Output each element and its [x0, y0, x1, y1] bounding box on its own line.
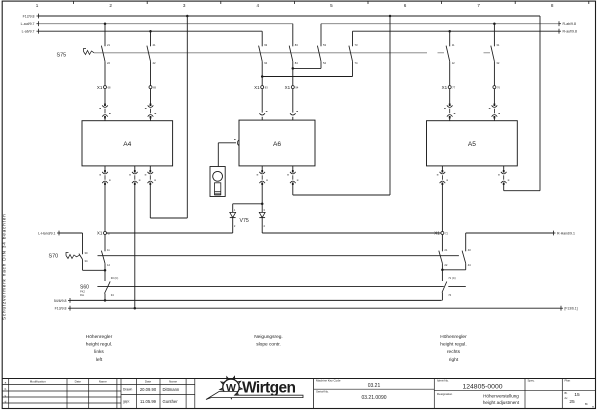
wire contact12 to node — [104, 267, 106, 270]
box A6 — [239, 120, 315, 166]
svg-text:71 (C): 71 (C) — [448, 276, 456, 280]
svg-text:53: 53 — [323, 43, 326, 47]
connector pin A6 top-left — [259, 111, 267, 115]
svg-text:L-auf/9.7: L-auf/9.7 — [21, 22, 35, 26]
svg-text:height regul.: height regul. — [440, 342, 466, 348]
svg-text:Rot: Rot — [80, 293, 84, 297]
svg-text:A5: A5 — [468, 141, 476, 148]
wire 84-54 tie — [292, 65, 321, 70]
node R-auf junction — [448, 30, 451, 33]
terminal X1:77 — [442, 85, 456, 90]
svg-text:R-ab/9.8: R-ab/9.8 — [563, 22, 576, 26]
wire stub 74 throw — [448, 286, 466, 288]
svg-text:64: 64 — [264, 61, 267, 65]
wire R-ab — [321, 21, 561, 26]
wire A6 pin2 to F12 riser — [293, 16, 390, 195]
svg-text:7: 7 — [477, 3, 480, 8]
connector pin A4 top-left — [99, 104, 110, 119]
terminal X1:76 — [493, 85, 501, 89]
svg-text:5: 5 — [330, 3, 333, 8]
terminal X1:67 — [97, 231, 111, 236]
terminal X1:68 — [97, 85, 111, 90]
svg-text:25: 25 — [569, 399, 575, 405]
svg-text:slope contr.: slope contr. — [256, 342, 281, 348]
svg-text:34: 34 — [111, 293, 114, 297]
caption middle section — [254, 334, 283, 348]
svg-text:Machine Key Code: Machine Key Code — [316, 379, 341, 383]
connector pin A4 top-right — [145, 104, 156, 119]
wire X1:93 to connector — [261, 89, 263, 113]
svg-text:Bl.: Bl. — [565, 391, 568, 395]
label R-Hand/9.1 — [557, 232, 575, 236]
wire L-ab to contact 41 — [150, 31, 152, 40]
wire R-Hand to contact 43 — [465, 233, 467, 245]
wire contact12 to X1:77 — [449, 65, 451, 86]
node F12-A6 junction — [389, 15, 392, 18]
svg-text:S75: S75 — [57, 53, 67, 59]
svg-text:Wirtgen: Wirtgen — [242, 380, 295, 397]
svg-text:Name: Name — [99, 380, 107, 384]
svg-text:dv.: dv. — [565, 396, 569, 400]
contact S75:21-22 — [101, 40, 110, 65]
wire contact42 to X1:69 — [150, 65, 152, 86]
svg-text:44: 44 — [468, 263, 471, 267]
connector pin A6 top-right — [290, 111, 298, 115]
connector pin A5 bottom-1 — [437, 166, 448, 185]
label 54/6/9.8 — [54, 299, 67, 303]
svg-text:F12/9.8: F12/9.8 — [23, 15, 35, 19]
label R-auf/9.8 — [563, 30, 577, 34]
svg-text:30: 30 — [85, 251, 88, 255]
label F12/9.8 — [23, 15, 35, 19]
wire A5 pin1 to X1:72 — [441, 185, 443, 232]
label S70 — [49, 253, 59, 259]
contact 21-22 lower-right — [439, 245, 448, 267]
svg-text:11.05.99: 11.05.99 — [140, 399, 157, 404]
svg-text:V75: V75 — [240, 218, 249, 224]
title block grid right — [314, 379, 596, 409]
svg-text:6: 6 — [404, 3, 407, 8]
svg-text:12: 12 — [107, 263, 110, 267]
label F13/6.1 right — [565, 307, 578, 311]
svg-text:54/6/9.8: 54/6/9.8 — [54, 299, 67, 303]
header Date right — [145, 380, 152, 384]
wire bus L-auf — [37, 21, 293, 26]
wire S60 to bus54 — [104, 296, 106, 300]
svg-text:Dittmann: Dittmann — [163, 387, 180, 392]
wire X1:72 to contact 21 — [441, 235, 443, 246]
wire A4 pin2 to F13 bus — [134, 185, 136, 308]
caption right section — [440, 334, 467, 363]
wire R-Hand — [466, 231, 556, 236]
wire X1:94 to connector — [292, 89, 294, 113]
wire X1:67 to contact 11 — [104, 235, 106, 246]
svg-text:Date: Date — [75, 380, 82, 384]
svg-text:63: 63 — [264, 43, 267, 47]
wire L-auf to contact 21 — [104, 24, 106, 40]
connector pin A4 bottom-1 — [99, 166, 110, 185]
svg-text:124805-0000: 124805-0000 — [462, 383, 502, 390]
svg-text:21: 21 — [107, 43, 110, 47]
wire connector to A6 right — [292, 117, 294, 120]
svg-text:74: 74 — [355, 61, 358, 65]
switch actuator S70 — [66, 253, 80, 259]
svg-text:Neigungsreg.: Neigungsreg. — [254, 334, 283, 340]
svg-text:74: 74 — [448, 293, 451, 297]
diode V75 right — [259, 204, 265, 228]
svg-text:gepr.: gepr. — [123, 400, 130, 404]
svg-text:R-Hand/9.1: R-Hand/9.1 — [557, 232, 575, 236]
node junction left lower — [104, 269, 107, 272]
svg-text:Drawn: Drawn — [123, 388, 132, 392]
svg-text:32: 32 — [496, 61, 499, 65]
wire bus F13 — [68, 306, 563, 311]
wire rung lower — [97, 286, 443, 288]
svg-text:3: 3 — [183, 3, 186, 8]
label L-Hand/9.1 — [38, 232, 55, 236]
svg-text:22: 22 — [444, 263, 447, 267]
wire V75 left to X1:67 — [107, 218, 233, 233]
wire connector to A6 left — [261, 117, 263, 120]
switch actuator S75 — [84, 49, 95, 55]
wire connector to A4 right — [150, 118, 152, 120]
connector pin A5 top-right — [489, 104, 500, 119]
svg-text:X1: X1 — [97, 231, 103, 236]
svg-text:X1: X1 — [285, 85, 291, 90]
title block grid left — [2, 379, 595, 409]
svg-text:height adjustment: height adjustment — [483, 400, 520, 405]
wire L-ab corner to contact 63 — [261, 31, 263, 40]
box A4 — [82, 121, 173, 166]
svg-text:2: 2 — [109, 3, 112, 8]
node F12-A4 junction — [186, 15, 189, 18]
cell Designation — [437, 392, 520, 405]
cell Ident-No — [437, 379, 503, 391]
svg-text:X1: X1 — [434, 231, 440, 236]
svg-text:right: right — [449, 357, 459, 363]
connector pin A6 bottom-1 — [257, 166, 268, 185]
terminal X1:72 — [434, 231, 448, 236]
svg-text:left: left — [96, 357, 103, 363]
contact S75:73-74 — [349, 40, 358, 65]
svg-text:21: 21 — [444, 248, 447, 252]
svg-text:Ident-No.: Ident-No. — [437, 379, 449, 383]
wire connector to A4 — [104, 118, 106, 120]
svg-text:31: 31 — [496, 43, 499, 47]
cell Serial-No — [316, 389, 387, 401]
wire V75 right to X1:72 — [262, 218, 441, 233]
node junction right lower — [441, 269, 444, 272]
wire contact22 to node — [441, 267, 443, 270]
cell Spec — [528, 379, 536, 383]
contact 71C-74 — [442, 270, 456, 297]
wire bus L-ab — [37, 29, 263, 34]
row Drawn — [123, 387, 180, 392]
contact S75:31-32 — [491, 40, 500, 65]
wire X1:77 to connector — [449, 89, 451, 104]
svg-text:42: 42 — [153, 61, 156, 65]
header Name right — [169, 380, 177, 384]
cell Machine Key Code — [316, 379, 380, 390]
svg-text:43: 43 — [468, 248, 471, 252]
svg-text:03.21: 03.21 — [368, 383, 381, 389]
wire L-auf corner to contact 83 — [292, 24, 294, 40]
svg-text:30 (C): 30 (C) — [111, 276, 119, 280]
contact S60:30C — [105, 270, 119, 297]
wire A6 pin1 to V75 node — [261, 185, 263, 204]
label R-ab/9.8 — [563, 22, 576, 26]
svg-text:Schutzvermerk nach DIN 34 beac: Schutzvermerk nach DIN 34 beachten — [2, 213, 7, 320]
wire contact32 to X1:76 — [493, 65, 495, 86]
svg-text:03.21.0090: 03.21.0090 — [361, 395, 386, 401]
wire connector to A5 — [449, 118, 451, 120]
label S60 — [80, 284, 89, 297]
wire tie to X1:93 — [261, 77, 263, 86]
contact S75:83-84 — [289, 40, 298, 65]
svg-text:Date: Date — [145, 380, 152, 384]
label F13/9.8 — [55, 307, 67, 311]
node L-auf junction — [104, 22, 107, 25]
header Date left — [75, 380, 82, 384]
wire R-auf — [353, 29, 562, 34]
svg-text:Name: Name — [169, 380, 177, 384]
terminal X1:93 — [254, 85, 268, 90]
svg-text:Gunther: Gunther — [163, 399, 179, 404]
label S75 — [57, 53, 67, 59]
column numbers 1-8 — [36, 1, 589, 8]
contact S75:11-12 — [446, 40, 455, 65]
svg-text:Höhenregler: Höhenregler — [86, 334, 113, 340]
wire bus F12 — [37, 14, 541, 19]
wire V75 branch left — [233, 204, 263, 213]
margin note DIN — [2, 213, 7, 320]
svg-text:Designation: Designation — [437, 392, 453, 396]
wire A4 pin1 to X1:67 — [104, 185, 106, 232]
logo Wirtgen text — [242, 380, 295, 397]
svg-text:73: 73 — [355, 43, 358, 47]
svg-text:X1: X1 — [97, 85, 103, 90]
logo Wirtgen gear — [220, 377, 242, 399]
label L-ab/9.7 — [22, 30, 35, 34]
svg-text:1: 1 — [36, 3, 39, 8]
contact 43-44 lower-right — [462, 245, 471, 267]
svg-text:34: 34 — [85, 259, 88, 263]
wire rung upper — [98, 255, 459, 257]
header Modification — [30, 380, 46, 384]
wire R-ab corner to contact 53 — [320, 24, 322, 40]
label L-auf/9.7 — [21, 22, 35, 26]
contact S75:41-42 — [147, 40, 156, 65]
box A5 — [427, 121, 518, 166]
svg-text:41: 41 — [153, 43, 156, 47]
svg-text:22: 22 — [107, 61, 110, 65]
wire 74 to bus54 — [441, 296, 443, 300]
connector pin A5 top-left — [444, 104, 455, 119]
logo block divider — [313, 379, 315, 409]
wire R-auf corner to contact 73 — [352, 31, 354, 40]
svg-text:Plan: Plan — [565, 379, 571, 383]
wire X1:76 to connector — [493, 89, 495, 104]
wire A6 to sensor B — [218, 143, 236, 167]
svg-text:4: 4 — [257, 3, 260, 8]
svg-text:height regul.: height regul. — [86, 342, 112, 348]
caption left section — [86, 334, 113, 363]
label V75 — [240, 218, 249, 224]
wire S70 to junction — [83, 263, 106, 270]
svg-text:15: 15 — [574, 392, 580, 398]
wire A5 pin2 to F12 riser — [504, 16, 540, 191]
wire connector to A5 right — [493, 118, 495, 120]
contact S75:53-54 — [317, 40, 326, 65]
wire tie to X1:94 — [292, 68, 294, 85]
svg-text:links: links — [94, 349, 104, 355]
svg-text:[F13/6.1]: [F13/6.1] — [565, 307, 578, 311]
svg-text:A6: A6 — [273, 141, 281, 148]
svg-text:S60: S60 — [80, 284, 89, 290]
svg-text:Höhenregler: Höhenregler — [440, 334, 467, 340]
svg-text:Spec.: Spec. — [528, 379, 536, 383]
svg-text:Modification: Modification — [30, 380, 46, 384]
wire X1:69 to connector — [150, 89, 152, 104]
svg-text:R-auf/9.8: R-auf/9.8 — [563, 30, 577, 34]
connector pin A6 left — [234, 140, 239, 146]
node L-ab junction — [149, 30, 152, 33]
sensor B slope — [210, 167, 225, 197]
terminal X1:69 — [149, 85, 157, 89]
svg-text:8: 8 — [551, 3, 554, 8]
wire contact22 to X1:68 — [104, 65, 106, 86]
wire bus 54/6 — [68, 298, 442, 303]
title block grid middle — [121, 379, 195, 409]
wire A4 pin3 to F12 riser — [150, 16, 187, 218]
node A4 pin2 junction F13 — [134, 307, 137, 310]
svg-text:20.09.90: 20.09.90 — [140, 387, 157, 392]
svg-text:rechts: rechts — [447, 349, 461, 355]
contact S75:11-12 lower-left — [101, 245, 110, 267]
svg-text:F13/9.8: F13/9.8 — [55, 307, 67, 311]
svg-text:Bl.: Bl. — [592, 407, 595, 409]
wire L-Hand — [57, 231, 83, 248]
connector pin A6 bottom-2 — [287, 166, 298, 185]
svg-text:Höhenverstellung: Höhenverstellung — [483, 394, 519, 399]
svg-text:S70: S70 — [49, 253, 59, 259]
connector pin A4 bottom-3 — [145, 166, 156, 185]
contact S70 — [79, 248, 88, 263]
svg-text:A4: A4 — [123, 141, 131, 148]
terminal X1:94 — [285, 85, 299, 90]
svg-text:L-Hand/9.1: L-Hand/9.1 — [38, 232, 55, 236]
node V75 junction — [261, 203, 264, 206]
svg-text:X1: X1 — [442, 85, 448, 90]
wire contact44 to node — [442, 267, 465, 270]
connector pin A5 bottom-2 — [498, 166, 509, 185]
row gepr — [123, 399, 178, 404]
svg-text:84: 84 — [295, 61, 298, 65]
logo swoosh — [206, 392, 303, 400]
node junction bus54 left — [104, 299, 107, 302]
svg-text:Serial-No.: Serial-No. — [316, 389, 329, 393]
connector pin A4 bottom-2 — [129, 166, 140, 185]
header Name left — [99, 380, 107, 384]
cell Plan — [565, 379, 571, 383]
svg-text:Bl.: Bl. — [585, 402, 588, 406]
wire X1:68 to connector — [104, 89, 106, 104]
contact S75:63-64 — [259, 40, 268, 65]
labels revision rows — [5, 380, 7, 403]
node R-ab junction — [493, 22, 496, 25]
mechanical link S75 line — [94, 52, 490, 54]
svg-text:X1: X1 — [254, 85, 260, 90]
wire R-auf to contact 11 — [449, 31, 451, 40]
svg-text:83: 83 — [295, 43, 298, 47]
svg-text:54: 54 — [323, 61, 326, 65]
svg-text:L-ab/9.7: L-ab/9.7 — [22, 30, 35, 34]
wire R-ab to contact 31 — [493, 24, 495, 40]
svg-text:12: 12 — [452, 61, 455, 65]
diode V75 left — [230, 208, 236, 228]
cell sheet numbers — [565, 391, 595, 408]
wire 64-74 tie — [261, 65, 353, 78]
